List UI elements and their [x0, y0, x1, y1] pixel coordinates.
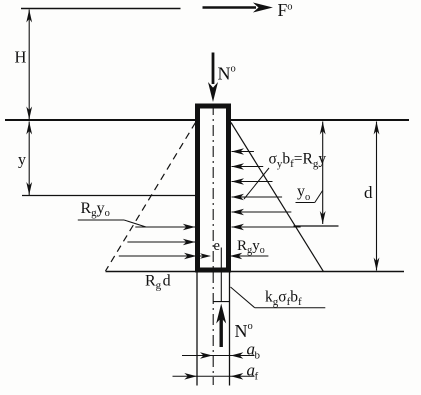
- left wall line below pile: [196, 273, 198, 386]
- dimension y line with arrows: [26, 122, 32, 196]
- left soil pressure arrows on pile: [127, 224, 195, 246]
- step line under pile base: [213, 301, 229, 303]
- dimension y_o line with arrows: [294, 122, 339, 227]
- svg-text:e: e: [214, 238, 220, 254]
- top cap level line: [21, 8, 181, 10]
- svg-text:b: b: [255, 350, 261, 362]
- dashed pressure-boundary diagonal left: [106, 123, 196, 272]
- dimension d line with arrows: [374, 122, 380, 271]
- bottom (foundation base) line: [106, 271, 405, 273]
- svg-text:f: f: [255, 371, 259, 383]
- arrow R_g y_o right with label: [230, 238, 269, 259]
- right soil pressure arrows on pile: [232, 148, 301, 230]
- force F arrow: [203, 3, 273, 13]
- solid pressure-boundary diagonal right: [231, 123, 323, 272]
- label R_g y_o left with leader: [78, 200, 146, 227]
- ground line right: [231, 119, 409, 121]
- level line at depth y: [22, 195, 196, 197]
- eccentric load axis line: [220, 248, 222, 302]
- force N top arrow: [208, 53, 218, 103]
- dimension a_b arrows: [182, 352, 255, 359]
- svg-text:H: H: [15, 48, 27, 67]
- pile axis dash-dot centerline: [212, 104, 214, 385]
- dimension H line with arrows: [26, 10, 32, 120]
- leader and label k_g sigma_f b_f: [231, 287, 326, 308]
- svg-text:kgσfbf: kgσfbf: [265, 289, 302, 309]
- leader line for sigma label: [244, 168, 269, 199]
- bottom left pressure arrow with eccentricity tip: [119, 253, 211, 260]
- ground line left: [5, 119, 196, 121]
- svg-text:y: y: [18, 152, 26, 169]
- dimension a_f arrows: [173, 373, 255, 380]
- label y_o with leader: [296, 183, 323, 203]
- force N bottom arrow: [216, 304, 226, 348]
- svg-text:d: d: [364, 183, 373, 202]
- pile (rigid foundation column): [198, 106, 229, 270]
- right wall line below pile: [229, 273, 231, 386]
